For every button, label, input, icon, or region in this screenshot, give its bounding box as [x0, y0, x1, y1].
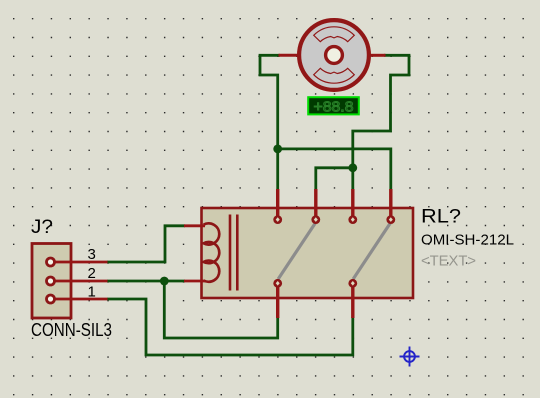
motor terminal stub left [279, 54, 299, 57]
connector pin stub 3 [51, 261, 108, 264]
relay switch blade 1 [278, 223, 315, 279]
relay pin stub B2 [351, 287, 354, 318]
svg-text:OMI-SH-212L: OMI-SH-212L [421, 232, 514, 249]
connector pin circle 2 [47, 277, 55, 285]
motor shaft [326, 47, 343, 64]
relay pin stub T4 [389, 189, 392, 216]
wire net1 motor-left to relay pins (top segment) [260, 55, 280, 190]
svg-text:RL?: RL? [421, 207, 461, 228]
origin marker [400, 347, 420, 367]
relay coil lead bottom [184, 280, 205, 283]
relay pin B1 [273, 279, 282, 288]
voltage probe display +88.8 [308, 97, 359, 115]
wire net2 motor-right down to relay pin T3 [353, 55, 409, 190]
relay pin T1 [273, 215, 282, 224]
motor U1 body [299, 20, 369, 90]
connector pin circle 3 [47, 258, 55, 266]
wire net1 horizontal branch to relay pin T4 [278, 149, 391, 190]
wire net4 branch down to relay pin B1 [164, 281, 277, 338]
svg-text:<TEXT>: <TEXT> [421, 254, 476, 270]
svg-text:3: 3 [88, 246, 96, 263]
motor commutator arc top [314, 27, 355, 42]
relay pin stub T3 [351, 189, 354, 216]
relay pin stub T1 [276, 189, 279, 216]
relay pin stub B1 [276, 287, 279, 318]
relay coil [204, 223, 220, 281]
wire net4 connector pin2 to relay coil bottom [107, 280, 185, 283]
wire net5 connector pin1 to relay pin B2 [107, 299, 353, 355]
junction node net4 [160, 277, 169, 286]
relay pin stub T2 [314, 189, 317, 216]
relay pin T3 [348, 215, 357, 224]
wire net2 branch to relay pin T2 [316, 168, 353, 190]
svg-text:CONN-SIL3: CONN-SIL3 [31, 320, 112, 340]
svg-text:+88.8: +88.8 [314, 99, 354, 116]
relay pin T4 [386, 215, 395, 224]
motor terminal stub right [370, 54, 386, 57]
relay pin B2 [348, 279, 357, 288]
junction node net2 [348, 163, 357, 172]
relay RL? body [202, 208, 414, 298]
svg-text:J?: J? [31, 217, 53, 238]
connector pin stub 2 [51, 280, 108, 283]
connector J? body [32, 244, 71, 319]
connector pin stub 1 [51, 298, 108, 301]
svg-text:1: 1 [88, 284, 96, 301]
relay coil lead top [184, 224, 205, 227]
relay pin T2 [311, 215, 320, 224]
wire net3 connector pin3 to relay coil top [107, 226, 185, 262]
relay core lines [230, 215, 237, 291]
junction node net1 [273, 145, 282, 154]
relay switch blade 2 [353, 223, 390, 279]
connector pin circle 1 [47, 295, 55, 303]
motor commutator arc bottom [314, 68, 355, 83]
svg-text:2: 2 [88, 265, 96, 282]
